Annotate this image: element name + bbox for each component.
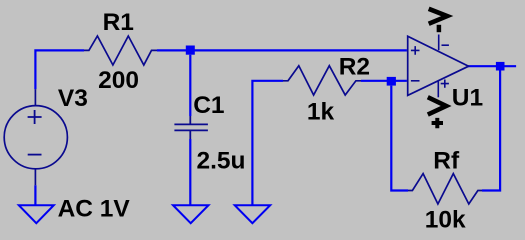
op-amp V+ pin plus mark xyxy=(441,80,449,88)
node junction at R1/C1 xyxy=(186,46,195,55)
V3 plus mark xyxy=(28,110,42,124)
resistor R1 body xyxy=(84,36,157,65)
svg-text:R1: R1 xyxy=(103,9,134,36)
op-amp V+ power pin stub xyxy=(437,82,439,98)
svg-text:R2: R2 xyxy=(339,53,370,80)
wire: V3 bottom to ground xyxy=(34,185,36,205)
svg-text:V3: V3 xyxy=(58,85,88,112)
op-amp V- power pin stub xyxy=(438,35,440,51)
capacitor C1 plates and leads xyxy=(174,116,208,139)
pin label V- (rotated) above op-amp xyxy=(429,9,448,32)
resistor R2 body xyxy=(283,66,361,95)
wire: C1 bottom to ground xyxy=(189,139,191,205)
svg-text:200: 200 xyxy=(98,67,139,94)
wire: top-left corner from V3 up and right to R1 xyxy=(35,50,84,89)
wire: R2 right lead to op-amp inverting input xyxy=(361,80,407,82)
V3 bottom lead xyxy=(34,169,36,185)
wire: op-amp output to right stub xyxy=(468,65,516,67)
pin label V+ (rotated) below op-amp xyxy=(428,97,446,128)
wire: junction down to C1 xyxy=(189,55,191,116)
ground (C1) xyxy=(173,205,209,223)
op-amp U1 triangle xyxy=(408,36,469,95)
wire: junction down and right to Rf left xyxy=(391,86,408,191)
svg-text:1k: 1k xyxy=(307,98,335,125)
wire: R1 right lead to op-amp + input (through node) xyxy=(157,49,407,51)
node junction at R2 / feedback xyxy=(387,77,396,86)
svg-text:C1: C1 xyxy=(193,92,224,119)
op-amp V- pin minus mark xyxy=(442,44,449,46)
svg-text:2.5u: 2.5u xyxy=(197,147,246,174)
ground (R2 input) xyxy=(235,205,271,223)
svg-text:Rf: Rf xyxy=(433,148,460,175)
svg-text:U1: U1 xyxy=(452,85,483,112)
V3 minus mark xyxy=(28,154,42,156)
V3 top lead xyxy=(34,89,36,105)
svg-text:10k: 10k xyxy=(425,207,466,234)
op-amp non-inverting input plus mark xyxy=(411,46,420,55)
node junction at output xyxy=(496,62,505,71)
wire: R2 left lead down to ground xyxy=(252,81,283,206)
resistor Rf body xyxy=(408,174,482,204)
op-amp inverting input minus mark xyxy=(411,80,420,82)
wire: output down and left to Rf right xyxy=(482,71,500,191)
svg-text:AC 1V: AC 1V xyxy=(58,196,131,223)
ground (V3) xyxy=(19,205,54,223)
voltage source V3 circle xyxy=(4,106,67,169)
